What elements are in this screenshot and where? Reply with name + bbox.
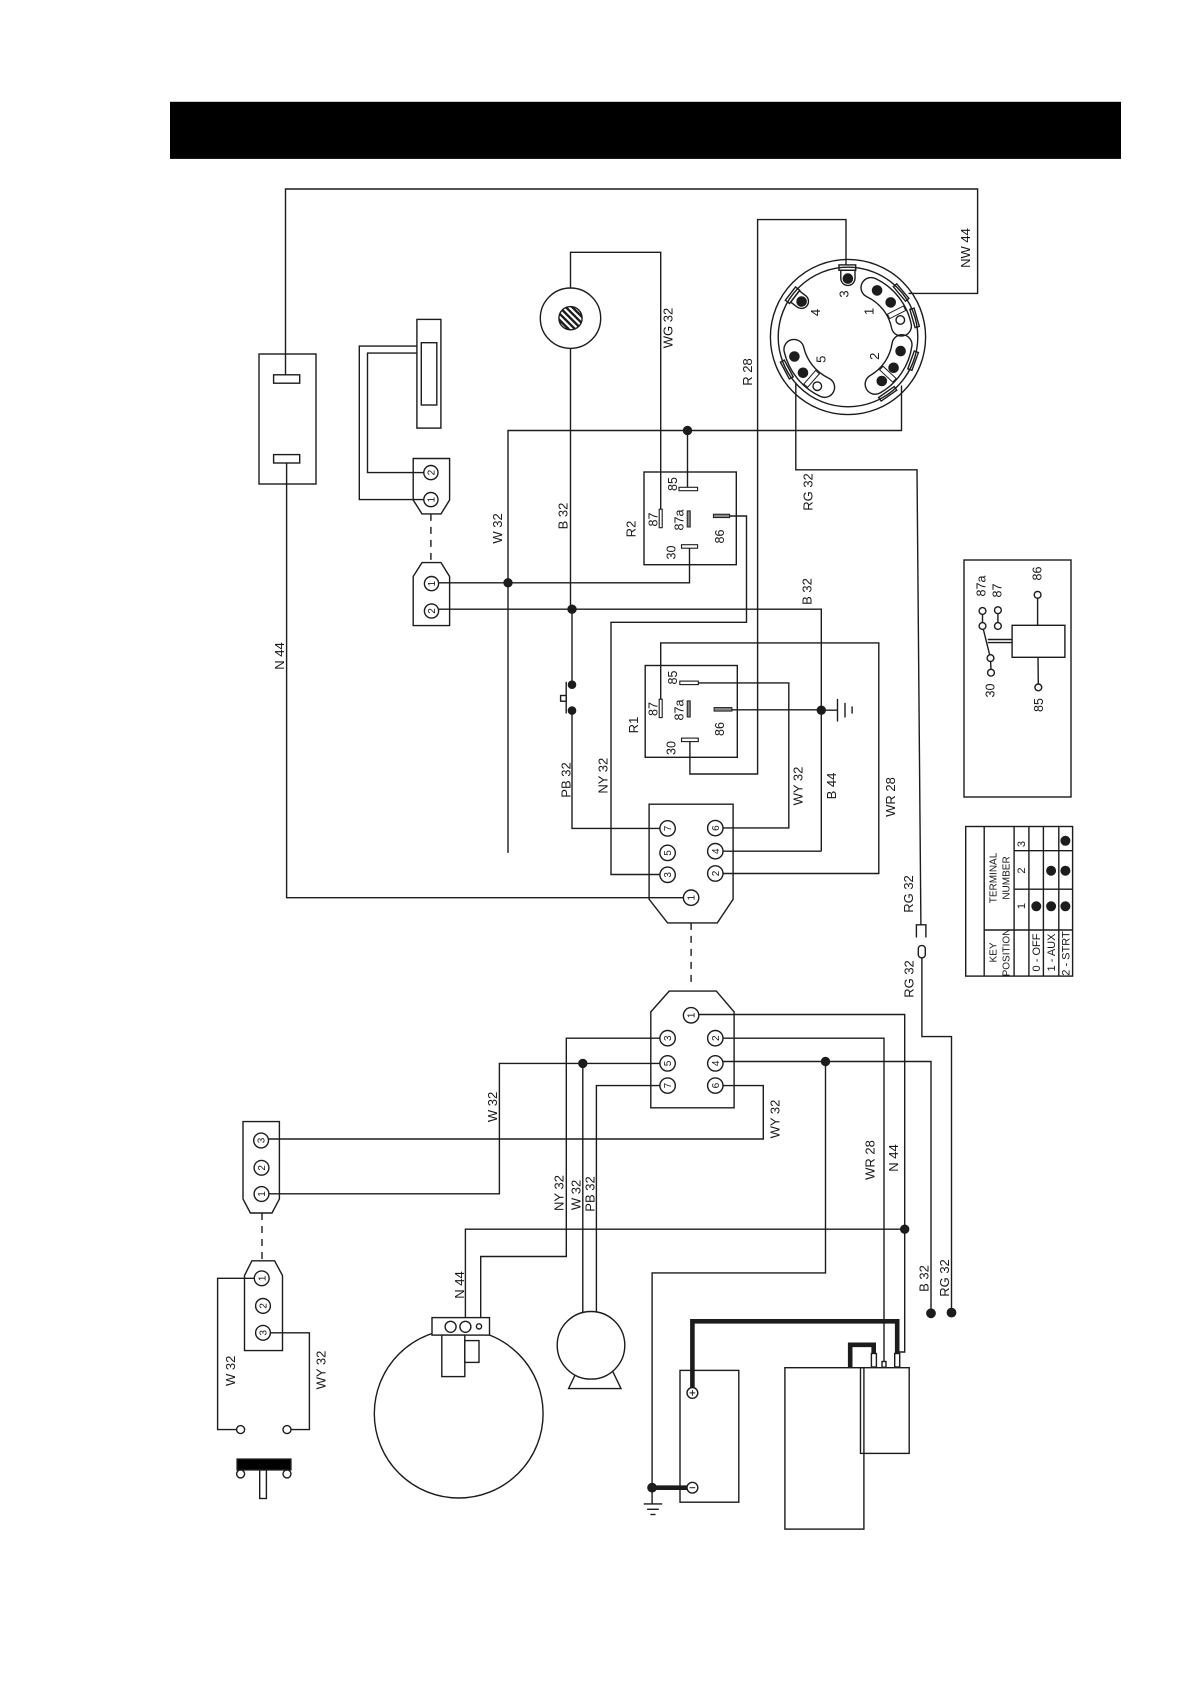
svg-text:1: 1 — [687, 894, 698, 900]
battery — [680, 1370, 739, 1502]
svg-text:1: 1 — [862, 308, 877, 315]
starter motor (engine) circle — [374, 1329, 543, 1498]
svg-text:N 44: N 44 — [272, 642, 287, 669]
wire B 32 : node to ground — [572, 609, 821, 851]
svg-text:1: 1 — [427, 580, 438, 586]
svg-text:7: 7 — [663, 1082, 674, 1088]
svg-text:R2: R2 — [624, 521, 639, 538]
wire end dot B32 — [927, 1309, 935, 1317]
svg-text:WY 32: WY 32 — [314, 1351, 329, 1390]
svg-text:B 44: B 44 — [824, 773, 839, 800]
svg-text:86: 86 — [713, 722, 727, 736]
svg-text:R1: R1 — [626, 717, 641, 734]
svg-text:NY 32: NY 32 — [596, 758, 611, 794]
svg-text:RG 32: RG 32 — [801, 473, 816, 511]
ignition pad 3 — [841, 270, 855, 285]
svg-text:POSITION: POSITION — [1002, 929, 1013, 977]
detail terminal 85 — [1035, 684, 1042, 691]
svg-text:W 32: W 32 — [569, 1180, 584, 1210]
svg-text:7: 7 — [663, 825, 674, 831]
svg-text:2: 2 — [711, 870, 722, 876]
wire N 44 : fuse to upper connector pin 1 — [287, 463, 684, 898]
connector X1b (2-pin) — [413, 563, 449, 626]
svg-text:3: 3 — [1016, 841, 1028, 847]
wire upper connector pin 4 to B44 — [723, 850, 821, 852]
R2 terminal 87 — [659, 509, 662, 528]
wire PB 32 : pushbutton to upper connector pin 7 — [572, 714, 660, 828]
svg-text:2: 2 — [867, 353, 882, 360]
svg-text:KEY: KEY — [989, 942, 1000, 962]
ignition pad 3 tab — [839, 265, 856, 270]
svg-text:RG 32: RG 32 — [901, 875, 916, 913]
node N44 branch junction — [901, 1225, 909, 1233]
svg-text:WR 28: WR 28 — [863, 1140, 878, 1180]
ignition rim tabs — [893, 284, 909, 301]
fuel sender — [557, 1312, 625, 1380]
wire W 32 : node down to fuel sender — [582, 1063, 584, 1312]
svg-text:W 32: W 32 — [490, 513, 505, 543]
wire N 44 branch to alternator — [465, 1229, 904, 1321]
wire pin 4 chain to B32 end dot — [723, 1062, 931, 1310]
wire R2-30 to W32 node — [508, 548, 690, 583]
R2 terminal 87a — [687, 511, 690, 527]
wire node to R2 terminal 85 — [687, 431, 689, 488]
starter motor body — [785, 1368, 864, 1529]
svg-text:N 44: N 44 — [452, 1271, 467, 1298]
svg-text:87a: 87a — [975, 576, 989, 597]
node battery negative junction — [648, 1484, 656, 1492]
svg-text:1: 1 — [257, 1191, 268, 1197]
R2 terminal 85 — [679, 487, 698, 490]
svg-text:6: 6 — [711, 1082, 722, 1088]
svg-text:N 44: N 44 — [886, 1144, 901, 1171]
fuel sender base — [569, 1371, 621, 1389]
svg-text:5: 5 — [663, 850, 674, 856]
svg-text:B 32: B 32 — [917, 1265, 932, 1292]
svg-text:30: 30 — [665, 546, 679, 560]
svg-text:WG 32: WG 32 — [661, 308, 676, 348]
R1 terminal 87 — [659, 699, 662, 717]
svg-text:85: 85 — [666, 671, 680, 685]
node B32 junction — [568, 605, 576, 613]
node W32 sender branch — [579, 1059, 587, 1067]
wire battery ground branch — [652, 1062, 825, 1485]
svg-text:3: 3 — [259, 1330, 270, 1336]
wire RG 32 : ignition pad 5 down — [796, 383, 921, 925]
detail coil link (double line) — [988, 639, 1012, 641]
R1 terminal 87a — [687, 701, 690, 717]
connector X2b (7-pin lower) — [651, 991, 734, 1108]
R1 terminal 30 — [682, 738, 699, 742]
ignition pad 2 — [865, 335, 912, 394]
battery positive cable (thick) — [692, 1321, 897, 1387]
svg-text:R 28: R 28 — [740, 358, 755, 385]
connector X3b (3-pin lower) — [245, 1261, 283, 1351]
wire WG 32 : lamp to relay R2 terminal 87 — [571, 252, 661, 509]
svg-text:1 - AUX: 1 - AUX — [1046, 933, 1058, 972]
svg-text:86: 86 — [713, 530, 727, 544]
R2 terminal 86 — [713, 514, 729, 517]
svg-text:85: 85 — [666, 477, 680, 491]
svg-text:1: 1 — [426, 496, 437, 502]
cable lug — [871, 1354, 876, 1368]
ground symbol (battery) — [651, 1488, 653, 1504]
node W32 junction — [504, 579, 512, 587]
ignition switch S1 — [770, 259, 925, 414]
svg-text:2: 2 — [427, 608, 438, 614]
svg-text:NY 32: NY 32 — [552, 1175, 567, 1211]
svg-text:1: 1 — [257, 1275, 268, 1281]
wire lower pin 1 to N44 run — [699, 1015, 905, 1355]
connector X1a (2-pin) — [413, 459, 449, 514]
wire NY 32 : R2-86 to upper connector pin 3 — [611, 516, 747, 875]
wire W32 node down to pin 5 — [507, 583, 509, 853]
svg-text:RG 32: RG 32 — [902, 960, 917, 998]
detail terminal 87 — [995, 607, 1002, 614]
node ground junction — [817, 706, 825, 714]
svg-text:1: 1 — [687, 1012, 698, 1018]
warning lamp L1 — [540, 288, 600, 348]
bullet connector RG32 male — [916, 925, 926, 938]
connector mating dashed line — [430, 514, 432, 563]
wire NW 44 : fuse to ignition pad 1 via top run — [286, 189, 978, 375]
detail terminal 86 — [1034, 591, 1041, 598]
svg-text:87: 87 — [647, 513, 661, 527]
wire NY 32 lower : pin 3 to alternator small terminal — [481, 1038, 660, 1324]
relay R2 — [644, 472, 736, 565]
battery negative cable (thick) — [654, 1485, 687, 1490]
wire WR 28 : R1-87 to upper connector pin 2 — [661, 643, 879, 874]
wire ignition pad 2 to W32 run — [508, 386, 902, 583]
connector X2a (7-pin upper) — [649, 804, 733, 923]
wire PB 32 lower : pin 7 to fuel sender — [596, 1086, 660, 1313]
svg-text:3: 3 — [257, 1137, 268, 1143]
bullet connector RG32 female — [918, 946, 925, 958]
svg-text:WR 28: WR 28 — [883, 777, 898, 817]
wire lamp to B32 node — [570, 348, 572, 605]
R2 terminal 30 — [682, 545, 698, 549]
svg-text:3: 3 — [836, 290, 851, 297]
svg-text:87: 87 — [647, 702, 661, 716]
svg-text:30: 30 — [665, 741, 679, 755]
R1 terminal 85 — [680, 681, 699, 685]
svg-text:87a: 87a — [673, 510, 687, 531]
ground symbol — [821, 709, 837, 711]
svg-text:WY 32: WY 32 — [791, 767, 806, 806]
wire WY 32 : X3b pin 3 to key switch contact — [270, 1333, 309, 1430]
ignition pad 1 — [861, 278, 911, 336]
svg-text:2: 2 — [426, 469, 437, 475]
key position table — [966, 827, 1073, 977]
svg-text:1: 1 — [1016, 903, 1028, 909]
svg-text:5: 5 — [663, 1060, 674, 1066]
svg-text:NW 44: NW 44 — [958, 228, 973, 268]
ignition pad 5 — [784, 339, 835, 397]
relay detail box — [964, 560, 1071, 797]
wire hour meter to connector pin 1 — [359, 346, 424, 500]
node junction R2-85 branch — [684, 427, 692, 435]
battery positive terminal — [687, 1388, 698, 1399]
R1 terminal 86 — [714, 708, 732, 712]
svg-text:2: 2 — [259, 1303, 270, 1309]
wire WR 28 lower : pin 2 to solenoid — [723, 1038, 884, 1361]
wire RG 32 lower to end dot — [922, 958, 952, 1309]
svg-text:30: 30 — [984, 684, 998, 698]
svg-text:3: 3 — [663, 1035, 674, 1041]
svg-text:4: 4 — [711, 848, 722, 854]
svg-text:6: 6 — [711, 825, 722, 831]
wire W 32 : X3b pin 1 to key switch contact — [218, 1278, 255, 1429]
wire X1b pin 1 to W32 node — [439, 582, 508, 584]
hour meter M1 — [417, 319, 441, 428]
svg-text:5: 5 — [814, 356, 829, 363]
svg-text:NUMBER: NUMBER — [1002, 856, 1013, 899]
svg-text:86: 86 — [1031, 567, 1045, 581]
battery negative terminal — [687, 1482, 698, 1493]
svg-text:B 32: B 32 — [800, 578, 815, 605]
svg-text:2 - STRT: 2 - STRT — [1061, 931, 1073, 976]
svg-text:3: 3 — [663, 872, 674, 878]
svg-text:WY 32: WY 32 — [768, 1100, 783, 1139]
svg-text:RG 32: RG 32 — [937, 1259, 952, 1297]
svg-text:0 - OFF: 0 - OFF — [1031, 933, 1043, 971]
detail terminal 87a — [979, 608, 986, 615]
svg-text:W 32: W 32 — [485, 1092, 500, 1122]
wire R1-86 to ground node — [732, 709, 821, 711]
ignition pad 4 — [785, 287, 811, 313]
key switch contact right — [283, 1426, 291, 1434]
detail coil — [1012, 625, 1065, 657]
svg-text:PB 32: PB 32 — [583, 1176, 598, 1211]
connector mating dashed line — [261, 1213, 263, 1261]
key switch contact left — [237, 1426, 245, 1434]
wire WY 32 : R1-85 to upper connector pin 6 — [698, 683, 789, 828]
starter solenoid — [861, 1368, 910, 1454]
svg-text:87a: 87a — [673, 700, 687, 721]
detail terminal 30 + movable contact — [987, 655, 994, 662]
pushbutton switch S2 contacts — [571, 609, 573, 681]
starter link cable (thick) — [850, 1345, 874, 1367]
alternator terminal block — [432, 1318, 490, 1336]
svg-text:2: 2 — [257, 1165, 268, 1171]
wire X1b pin 2 to B32 node — [439, 608, 572, 610]
node battery ground branch — [822, 1058, 830, 1066]
svg-text:4: 4 — [711, 1060, 722, 1066]
relay R1 — [645, 666, 737, 758]
svg-text:4: 4 — [808, 309, 823, 316]
key symbol — [237, 1459, 291, 1470]
svg-text:87: 87 — [991, 584, 1005, 598]
solenoid terminal WR28 — [882, 1362, 886, 1368]
connector X3a (3-pin upper) — [243, 1122, 279, 1213]
svg-text:PB 32: PB 32 — [559, 762, 574, 797]
svg-text:2: 2 — [711, 1035, 722, 1041]
svg-text:85: 85 — [1032, 698, 1046, 712]
cable lug — [895, 1354, 900, 1368]
wire hour meter to connector pin 2 — [368, 353, 424, 473]
fuse F1 — [259, 354, 316, 484]
wire end dot RG32 — [947, 1308, 955, 1316]
svg-text:B 32: B 32 — [556, 503, 571, 530]
ignition pad slashes — [887, 306, 905, 319]
connector mating dashed line — [690, 923, 692, 987]
svg-text:TERMINAL: TERMINAL — [989, 852, 1000, 903]
wire pin 5 chain to 3-pin connector pin 1 — [269, 1063, 660, 1193]
wire WY 32 lower : pin 6 to 3-pin connector pin 3 — [269, 1086, 763, 1139]
wire R 28 : ignition pad 3 to relay R1 terminal 30 — [690, 220, 846, 774]
svg-text:W 32: W 32 — [223, 1356, 238, 1386]
title bar (redacted) — [170, 102, 1121, 159]
svg-text:2: 2 — [1016, 867, 1028, 873]
